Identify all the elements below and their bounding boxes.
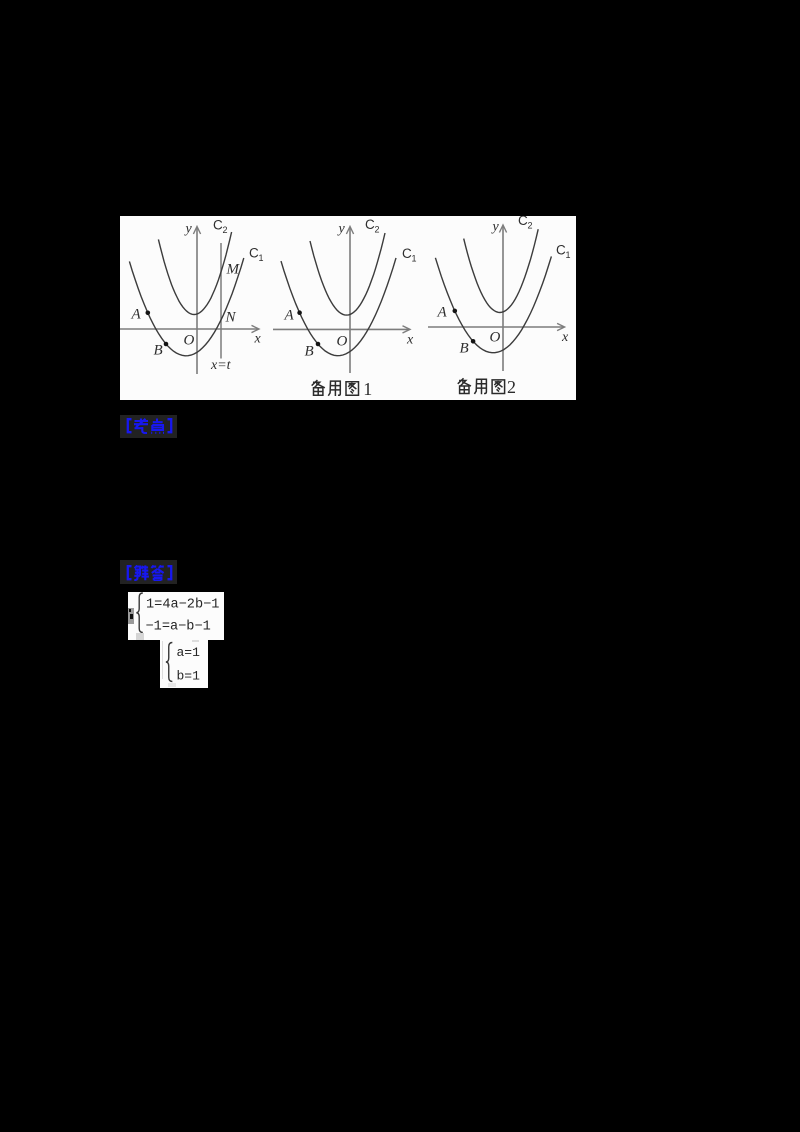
- svg-text:C: C: [213, 218, 223, 233]
- svg-text:N: N: [225, 310, 237, 326]
- svg-text:1=4a−2b−1: 1=4a−2b−1: [146, 598, 219, 613]
- svg-text:1: 1: [412, 254, 417, 264]
- svg-text:C: C: [402, 246, 412, 261]
- svg-text:y: y: [337, 221, 346, 236]
- svg-text:M: M: [226, 262, 241, 278]
- svg-text:b=1: b=1: [177, 668, 201, 683]
- svg-text:O: O: [337, 334, 348, 350]
- svg-text:1: 1: [363, 379, 372, 399]
- svg-text:y: y: [184, 222, 193, 237]
- svg-text:A: A: [131, 307, 142, 323]
- svg-text:x: x: [561, 330, 569, 345]
- svg-text:x: x: [406, 333, 414, 348]
- svg-text:x=t: x=t: [210, 358, 232, 373]
- svg-text:B: B: [154, 343, 163, 359]
- svg-text:y: y: [491, 219, 500, 234]
- svg-text:A: A: [284, 308, 295, 324]
- svg-text:O: O: [184, 333, 195, 349]
- svg-text:C: C: [365, 217, 375, 232]
- svg-text:B: B: [305, 344, 314, 360]
- svg-text:−1=a−b−1: −1=a−b−1: [146, 620, 211, 635]
- svg-text:B: B: [460, 341, 469, 357]
- svg-text:x: x: [254, 332, 262, 347]
- svg-text:A: A: [437, 305, 448, 321]
- svg-text:1: 1: [566, 250, 571, 260]
- svg-text:2: 2: [507, 377, 516, 397]
- svg-text:a=1: a=1: [177, 645, 201, 660]
- svg-text:2: 2: [528, 221, 533, 231]
- svg-text:C: C: [249, 246, 259, 261]
- svg-text:C: C: [518, 216, 528, 228]
- svg-text:2: 2: [375, 225, 380, 235]
- svg-text:O: O: [490, 330, 501, 346]
- svg-text:1: 1: [259, 253, 264, 263]
- svg-text:2: 2: [223, 225, 228, 235]
- svg-text:C: C: [556, 243, 566, 258]
